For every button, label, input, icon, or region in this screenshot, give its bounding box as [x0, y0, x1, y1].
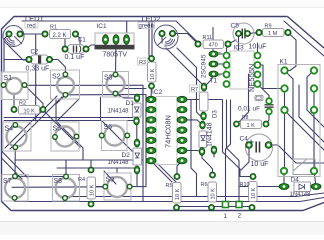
relay K1 coil symbol: [293, 159, 315, 175]
wire D2 bottom drop: [136, 170, 138, 187]
wire S8 top drop: [65, 160, 67, 177]
IC3 body: [230, 51, 254, 89]
wire R11 right to C5: [228, 40, 236, 44]
C2 pads: [26, 56, 53, 62]
resistor R7 body: [200, 92, 209, 111]
wire S2 to S4 long diagonal 2: [10, 97, 62, 149]
wire R4 top up: [90, 160, 92, 170]
wire IC2 pin14 to vertical bundle: [187, 99, 223, 101]
R1 pads: [42, 31, 79, 37]
wire C2 left to board edge: [4, 60, 29, 72]
wire vertical x143: [142, 86, 144, 202]
wire IC2 pin to D3 bottom: [187, 151, 202, 152]
svg-text:10 K: 10 K: [24, 109, 36, 115]
capacitor C5: [233, 23, 254, 44]
svg-text:1 K: 1 K: [247, 123, 256, 129]
R5 pads: [174, 174, 181, 211]
C3 label box: [255, 96, 263, 101]
S4 pads: [13, 122, 18, 150]
svg-text:10 K: 10 K: [89, 184, 95, 196]
svg-text:D3: D3: [213, 110, 219, 118]
resistor R11 body: [203, 40, 224, 49]
svg-text:1: 1: [224, 213, 228, 220]
svg-text:C1: C1: [78, 38, 86, 44]
svg-text:R2: R2: [19, 101, 26, 107]
svg-text:10 uF: 10 uF: [249, 44, 267, 51]
wire S7 top to S8 top: [15, 175, 66, 177]
switch S9: [104, 173, 131, 200]
wire LED2 diagonal 2: [177, 48, 203, 118]
D3 pads: [199, 121, 217, 156]
R3 pads: [149, 56, 155, 90]
diode D3 body: [199, 131, 207, 148]
svg-text:10 K: 10 K: [150, 68, 156, 80]
relay K1 box: [278, 65, 320, 177]
wire lower-left diagonal 1: [2, 151, 29, 178]
svg-text:green: green: [139, 24, 154, 30]
wire D1 bottom to D2 top: [136, 123, 138, 141]
svg-text:C3: C3: [256, 96, 263, 102]
C3 plates: [265, 105, 274, 107]
resistor R10 body: [249, 182, 258, 202]
wire vertical x149: [148, 21, 150, 56]
C3 pads: [266, 98, 272, 114]
LED1 name box: [25, 22, 38, 29]
IC2 body: [156, 97, 177, 165]
D1 pads: [134, 94, 140, 125]
svg-text:10 uF: 10 uF: [251, 161, 269, 168]
wire R2 right diagonal to S5: [43, 110, 80, 147]
wire R7 top to T1: [204, 76, 213, 88]
svg-text:C2: C2: [31, 50, 39, 56]
svg-text:1N4148: 1N4148: [290, 192, 312, 198]
wire S9 diagonal: [104, 171, 116, 184]
svg-text:S2: S2: [52, 74, 61, 81]
svg-text:C4: C4: [240, 136, 249, 143]
wire K1 top-right pad diagonal: [307, 71, 324, 128]
S7 pads: [12, 174, 18, 201]
svg-text:LED1: LED1: [25, 14, 44, 23]
wire LED1 to R1: [20, 33, 45, 35]
wire top horizontal bus: [22, 21, 198, 43]
R9 pads: [256, 29, 291, 35]
wire long horizontal y120: [4, 120, 133, 122]
LED1: [3, 26, 24, 47]
wire vertical x190: [191, 100, 197, 197]
svg-text:R3: R3: [139, 60, 146, 66]
svg-text:R11: R11: [203, 35, 213, 41]
wire S9 left pad link: [96, 186, 106, 188]
S5 pads: [52, 134, 79, 140]
R4 pads: [88, 167, 94, 207]
svg-text:1 M: 1 M: [268, 31, 278, 37]
switch S3: [103, 72, 129, 98]
wire t1 link3: [218, 73, 223, 75]
LED2 pads: [159, 30, 176, 36]
svg-text:D1: D1: [126, 100, 135, 107]
wire vertical x56 S2 to S5: [55, 100, 57, 122]
svg-text:1N4148: 1N4148: [207, 122, 214, 147]
wire stub pad 214: [213, 150, 215, 157]
wire S2 bottom diagonal: [56, 95, 65, 104]
svg-text:0.1 uF: 0.1 uF: [65, 54, 85, 61]
wire right diagonal bundle: [285, 110, 324, 150]
wire S2 bottom horizontal: [65, 94, 146, 96]
resistor R2 body: [19, 106, 40, 115]
wire K1 vertical 299 diagonal: [299, 85, 324, 142]
svg-text:NE555N: NE555N: [247, 64, 256, 92]
resistor R9 body: [263, 29, 285, 37]
wire IC3 pin1 up to R11: [227, 47, 229, 56]
S3 pads: [113, 72, 118, 96]
S8 pads: [62, 174, 68, 201]
svg-text:74HC08N: 74HC08N: [164, 115, 173, 148]
C4 pads: [246, 142, 272, 149]
switch S5: [51, 122, 79, 151]
switch S1: [2, 72, 29, 100]
resistor R5 body: [173, 183, 182, 204]
R6 pads: [209, 172, 216, 211]
board outline top-right chamfer: [288, 17, 324, 49]
footer strip: [0, 222, 324, 235]
wire IC3 pin to K1: [258, 65, 285, 89]
wire LED2 left pad drop: [161, 34, 163, 44]
R11 pads: [195, 41, 231, 47]
svg-text:IC3: IC3: [234, 45, 245, 52]
svg-text:0,01 uF: 0,01 uF: [238, 106, 260, 113]
wire IC1 pin2 down to S3: [115, 40, 118, 75]
wire R5 top link: [177, 161, 182, 177]
R2 pads: [11, 107, 46, 113]
wire S7 to S9 horizontal: [12, 186, 105, 189]
resistor R6 body: [208, 182, 217, 202]
svg-text:S5: S5: [53, 126, 62, 133]
IC2 pads left column: [146, 96, 156, 164]
capacitor C1 body: [68, 45, 85, 54]
diode D2 body: [133, 148, 142, 165]
wire K1 top-left pad to coil: [285, 71, 294, 160]
wire bus to D4 left pad: [240, 186, 279, 188]
wire C5 to R9: [248, 33, 260, 34]
wire lower-left diagonal 2: [2, 158, 23, 179]
wire LED2 diagonal to R7: [166, 48, 204, 86]
wire drop to IC1 pin3: [126, 21, 128, 34]
svg-text:10 K: 10 K: [175, 188, 181, 200]
resistor R4 body: [87, 177, 96, 199]
wire C2 center vertical: [35, 34, 37, 56]
svg-text:S4: S4: [5, 126, 14, 133]
wire S6 diagonal: [102, 121, 139, 158]
switch S7: [2, 175, 28, 202]
wire K1 to D4 left: [283, 171, 285, 187]
wire horizontal y160: [15, 159, 143, 161]
R8 pads: [234, 121, 270, 127]
wire horizontal y168: [57, 167, 136, 169]
switch S4: [3, 122, 31, 151]
wire S9 right pad link: [130, 186, 146, 188]
svg-text:R1: R1: [50, 25, 57, 31]
wire R1 right to C1: [76, 34, 81, 44]
svg-text:D2: D2: [122, 152, 131, 159]
IC2 pads right column: [177, 96, 187, 164]
wire C4 right diagonal: [269, 145, 324, 163]
wire S2 to S4 long diagonal 1: [5, 96, 57, 148]
D2 pads: [134, 139, 140, 174]
capacitor C4: [246, 134, 273, 161]
S2 pads: [63, 72, 68, 98]
T1 pads: [209, 51, 218, 77]
wire R11 left pad to LED2: [174, 34, 198, 45]
wire IC2 bottom diagonal 1: [152, 162, 172, 182]
wire vertical x226 to pad2: [227, 100, 240, 205]
capacitor C2 body: [32, 55, 48, 64]
svg-text:S3: S3: [104, 75, 113, 82]
svg-text:C5: C5: [231, 23, 240, 30]
wire C5 left pad drop: [238, 34, 240, 52]
svg-text:R6: R6: [201, 182, 208, 188]
svg-text:LED2: LED2: [142, 15, 161, 24]
svg-text:R10: R10: [240, 182, 250, 188]
wire LED1 area diagonal: [7, 44, 29, 60]
transistor T1 outline: [218, 52, 227, 76]
LED2: [154, 25, 178, 49]
C5 pads: [236, 31, 251, 37]
wire S1 right diagonal to R2: [25, 85, 44, 107]
S1 pads: [1, 82, 27, 87]
wire IC2 bottom diagonal 2: [158, 164, 176, 182]
IC3 pads: [224, 53, 261, 88]
resistor R1 body: [50, 30, 71, 39]
wire long horizontal y117: [4, 117, 133, 119]
wire IC3 pin8 up: [257, 43, 259, 56]
wire S7 bottom drop: [14, 198, 16, 202]
svg-text:R9: R9: [265, 24, 272, 30]
svg-text:10 K: 10 K: [210, 188, 216, 200]
wire parallel to top-right chamfer: [284, 21, 324, 56]
wire IC3 pin5 to C3: [258, 84, 270, 101]
svg-text:10 K: 10 K: [251, 187, 257, 199]
wire S8 bottom drop: [64, 198, 66, 202]
wire bottom bus 2: [15, 198, 324, 202]
wire vertical x146: [145, 95, 147, 187]
switch S8: [53, 175, 80, 202]
LED1 pads: [6, 31, 23, 37]
LED2 name box: [138, 22, 155, 29]
svg-text:S1: S1: [4, 75, 13, 82]
wire LED2 vertical x152 to R3: [151, 21, 153, 59]
svg-text:T1: T1: [210, 78, 218, 85]
svg-text:1N4148: 1N4148: [108, 160, 130, 166]
svg-text:R7: R7: [191, 87, 198, 93]
svg-text:470: 470: [209, 43, 218, 49]
wire R9 right to K1: [285, 33, 297, 71]
svg-text:0,33 uF: 0,33 uF: [26, 66, 50, 73]
wire vertical x222 to R10: [223, 100, 253, 177]
wire vertical x36 between S1 S2: [35, 64, 37, 122]
svg-text:2.2 K: 2.2 K: [53, 33, 67, 39]
wire C1 left pad up: [65, 33, 68, 49]
svg-text:IC1: IC1: [97, 23, 108, 30]
resistor R3 body: [148, 62, 157, 82]
svg-text:R4: R4: [78, 177, 85, 183]
D4 pads: [279, 184, 321, 190]
wire bottom pads bus: [176, 206, 252, 208]
wire S1 bottom to R2 left: [13, 93, 15, 110]
IC1 7805 body: [95, 33, 134, 46]
wire C1 right to IC1 pin1: [86, 41, 106, 49]
diode D1 body: [133, 103, 142, 117]
wire S4 bottom to S7 top: [14, 147, 16, 176]
resistor R8 body: [241, 120, 262, 129]
wire S2 mid horizontal: [25, 84, 144, 86]
svg-text:S6: S6: [104, 124, 113, 131]
wire t1 link2: [218, 63, 223, 65]
S6 pads: [99, 133, 130, 138]
wire S2 corner to S5: [55, 99, 79, 123]
svg-text:D4: D4: [291, 177, 300, 184]
pad 2 square: [236, 202, 242, 208]
wire bottom bus 1: [66, 193, 324, 197]
svg-text:K1: K1: [280, 59, 288, 66]
R7 label box: [190, 85, 200, 92]
svg-text:red: red: [27, 24, 36, 30]
C1 pads: [62, 46, 89, 52]
svg-text:2: 2: [238, 213, 242, 220]
wire C3 bottom to R8: [266, 112, 269, 125]
wire S3 bottom to D1: [116, 94, 134, 99]
wire R4 bottom drop: [90, 202, 92, 205]
wire C4 left to R10: [241, 145, 249, 170]
wire S5 diagonal 2: [57, 122, 83, 160]
svg-text:S9: S9: [106, 177, 115, 184]
svg-text:S7: S7: [3, 178, 12, 185]
R3 label box: [138, 58, 148, 65]
svg-text:R5: R5: [166, 183, 173, 189]
pad 1 square: [223, 202, 229, 208]
wire IC2 pin to D3 top: [187, 120, 203, 125]
wire S3 vertical x100: [100, 97, 102, 121]
svg-text:S8: S8: [54, 178, 63, 185]
K1 pads: [281, 67, 317, 174]
wire LED1 left pad to left edge: [4, 34, 9, 60]
svg-text:R8: R8: [242, 115, 249, 121]
svg-text:IC2: IC2: [152, 89, 163, 96]
svg-text:2SC945: 2SC945: [201, 54, 208, 78]
R7 pads: [201, 83, 207, 120]
svg-text:1N4148: 1N4148: [108, 109, 130, 115]
IC1 pads: [103, 35, 130, 45]
wire D3 bottom to R6 top: [202, 152, 213, 176]
wire K1 to D4 right: [314, 171, 316, 187]
wire S9 top drop: [116, 168, 118, 173]
switch S2: [51, 70, 80, 99]
wire K1 coil left: [284, 89, 286, 172]
wire vertical x230 to pad1: [226, 100, 231, 205]
wire T1 pin links to IC3: [218, 53, 223, 55]
svg-text:7805TV: 7805TV: [103, 52, 128, 59]
S9 pads: [103, 184, 133, 189]
wire R3 bottom to IC2 pin1: [150, 86, 153, 100]
R10 pads: [249, 174, 256, 211]
diode D4 body: [294, 182, 311, 192]
wire vertical to T1 pin1: [212, 28, 214, 52]
switch S6: [102, 121, 128, 151]
wire C2 right to S2 top pad: [50, 60, 66, 75]
wire K1 coil right: [313, 89, 315, 172]
wire horizontal y88: [124, 88, 146, 90]
wire vertical x248: [237, 74, 249, 124]
